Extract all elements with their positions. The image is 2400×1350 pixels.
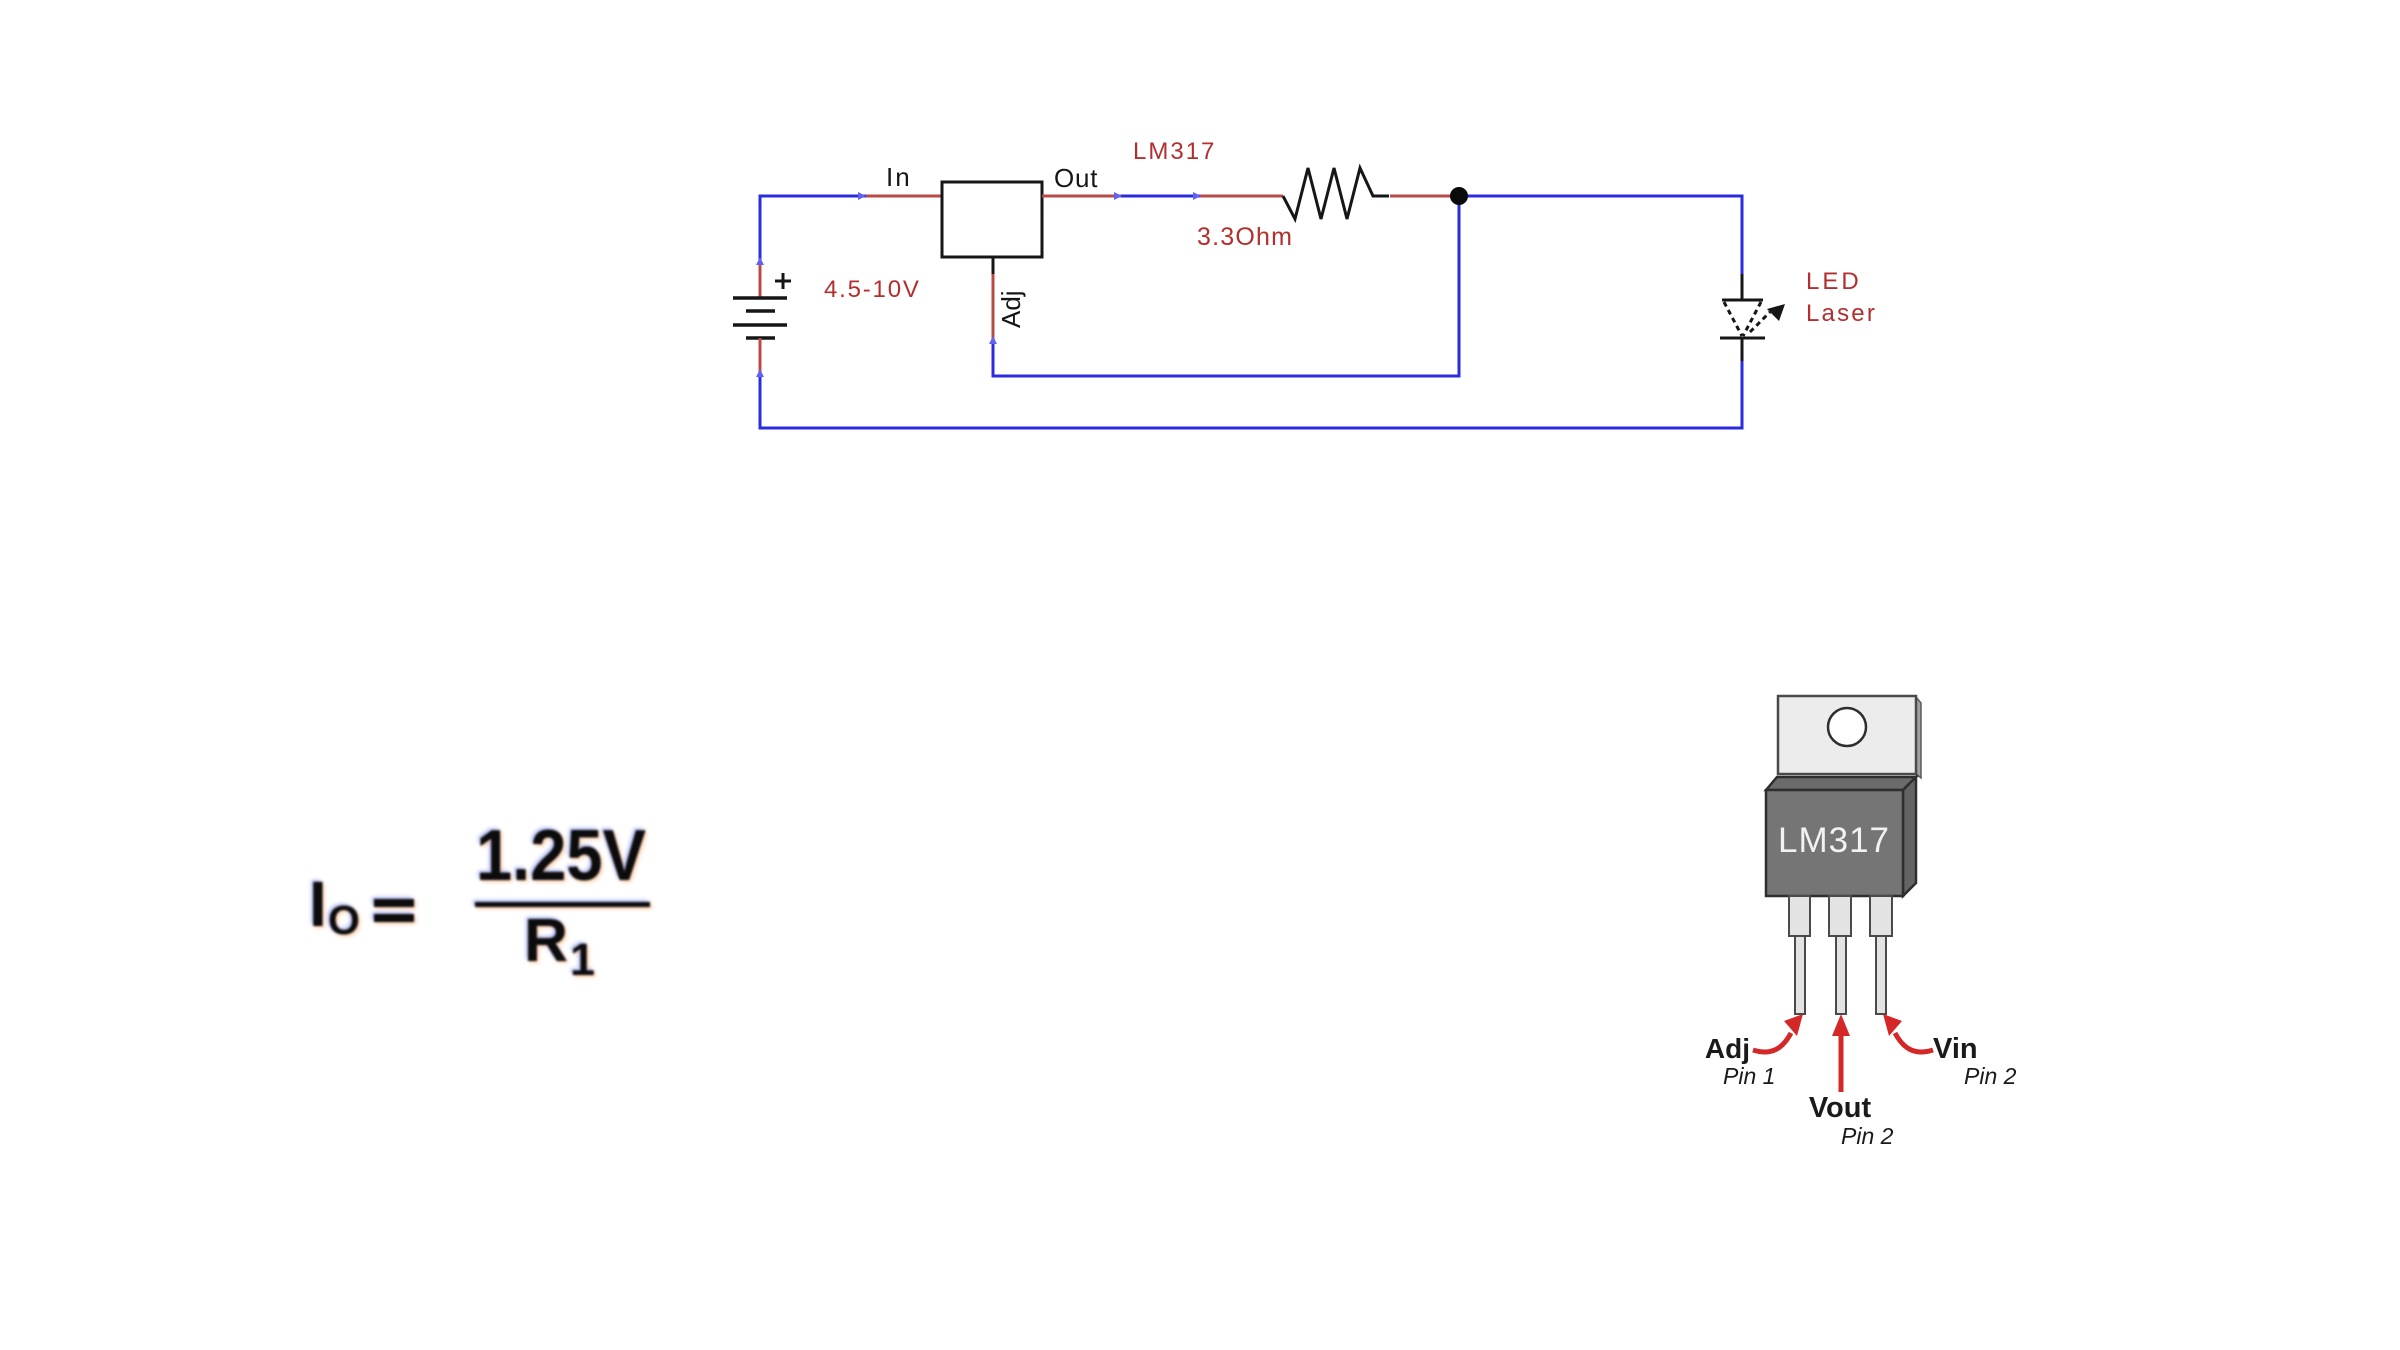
wire battery+ to LM317 In (blue segment) (760, 196, 866, 261)
svg-text:LM317: LM317 (1778, 821, 1890, 860)
pin label Vin (1933, 1033, 1978, 1065)
label 4.5-10V (red) (824, 276, 921, 303)
label LED (red) (1806, 268, 1862, 295)
svg-text:4.5-10V: 4.5-10V (824, 276, 921, 303)
svg-text:R: R (524, 906, 568, 974)
svg-text:Pin 1: Pin 1 (1723, 1063, 1775, 1089)
LED D1 laser diode (1720, 274, 1785, 361)
battery B1 (733, 273, 791, 338)
formula fraction bar (475, 902, 650, 907)
svg-text:Vout: Vout (1809, 1092, 1872, 1124)
wire direction arrows (small blue) (756, 192, 1201, 377)
package pin 2 leg (Vout) (1829, 896, 1851, 1014)
svg-text:In: In (886, 162, 912, 192)
wire battery+ red segment to In (866, 195, 942, 198)
wire red segment to resistor (1200, 195, 1283, 198)
resistor R1 3.3Ohm (1283, 168, 1389, 219)
svg-text:Adj: Adj (1705, 1033, 1750, 1064)
arrow Vout -> pin2 (red) (1832, 1014, 1850, 1092)
svg-text:Out: Out (1054, 163, 1098, 193)
package pin 1 leg (Adj) (1789, 896, 1810, 1014)
LM317 regulator U1 box (942, 182, 1042, 257)
pin label Adj (rotated) (996, 290, 1026, 328)
arrow Vin -> pin3 (red) (1883, 1014, 1933, 1052)
wire Out blue segment (1121, 195, 1200, 198)
wire LM317 Out red segment (1042, 195, 1121, 198)
svg-text:I: I (309, 868, 327, 940)
wire red battery top lead (759, 259, 762, 299)
svg-text:LED: LED (1806, 268, 1862, 295)
arrow Adj -> pin1 (red) (1753, 1014, 1803, 1052)
pin label In (886, 162, 912, 192)
wire battery- red lead (759, 338, 762, 375)
pin label Vout (1809, 1092, 1872, 1124)
svg-text:Pin 2: Pin 2 (1964, 1063, 2017, 1089)
wire bottom return (blue) (760, 361, 1742, 428)
pin label Pin 2 (right) (1964, 1063, 2017, 1089)
formula equals (374, 899, 414, 907)
pin label Adj (1705, 1033, 1750, 1064)
svg-text:Vin: Vin (1933, 1033, 1978, 1065)
wire Adj black stub (992, 257, 995, 274)
svg-text:Laser: Laser (1806, 300, 1877, 327)
pin label Out (1054, 163, 1098, 193)
wire node to LED top (blue) (1459, 196, 1742, 274)
svg-text:Adj: Adj (996, 290, 1026, 328)
svg-text:1.25V: 1.25V (476, 816, 646, 896)
package mounting tab (1778, 696, 1921, 778)
pin label Pin 2 (bottom) (1841, 1123, 1894, 1149)
package mounting hole (1828, 708, 1866, 746)
wire Adj red lead (992, 272, 995, 342)
svg-text:3.3Ohm: 3.3Ohm (1197, 223, 1293, 251)
node A junction dot (1450, 187, 1468, 205)
label LM317 (red) (1133, 138, 1216, 165)
package body (front/top/side faces) (1766, 777, 1916, 896)
svg-text:1: 1 (570, 934, 595, 985)
svg-text:Pin 2: Pin 2 (1841, 1123, 1894, 1149)
wire resistor to node (red) (1390, 195, 1459, 198)
label 3.3Ohm (red) (1197, 223, 1293, 251)
label Laser (red) (1806, 300, 1877, 327)
package pin 3 leg (Vin) (1870, 896, 1892, 1014)
pin label Pin 1 (1723, 1063, 1775, 1089)
svg-text:LM317: LM317 (1133, 138, 1216, 165)
wire node down to Adj feedback (blue) (993, 196, 1459, 376)
svg-text:O: O (328, 897, 360, 943)
